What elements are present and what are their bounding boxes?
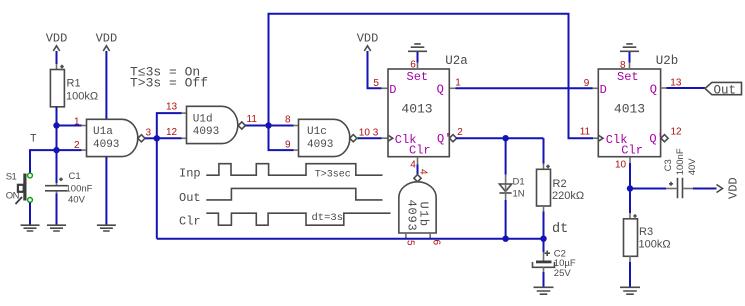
green pin dot (356, 137, 358, 139)
svg-text:100nF: 100nF (66, 183, 93, 194)
wire R3 to ground (629, 256, 631, 287)
svg-text:S1: S1 (6, 172, 17, 183)
node junction D1 bottom (502, 236, 508, 242)
wire junction to U1d pin12 (157, 137, 187, 139)
svg-text:13: 13 (670, 78, 682, 89)
svg-text:VDD: VDD (46, 32, 68, 46)
U1a output bubble (138, 135, 145, 142)
svg-text:VDD: VDD (96, 32, 118, 46)
nand gate U1b 4093 (rotated, pointing up) (399, 182, 436, 233)
svg-text:dt: dt (552, 222, 568, 237)
bottom rail wire (157, 238, 544, 240)
power symbol VDD (left, above R1) (46, 32, 68, 70)
svg-text:9: 9 (584, 78, 590, 89)
svg-text:Clr: Clr (179, 215, 201, 229)
svg-text:T: T (30, 133, 37, 145)
svg-text:Clr: Clr (409, 144, 431, 158)
svg-text:Clr: Clr (621, 144, 643, 158)
wire U2a Q' to D1/R2 (456, 137, 544, 139)
svg-text:9: 9 (285, 139, 291, 150)
svg-text:1: 1 (74, 116, 80, 127)
svg-text:4013: 4013 (401, 102, 432, 117)
ground (below U1a) (97, 225, 116, 231)
svg-text:Set: Set (407, 70, 429, 84)
svg-text:13: 13 (166, 101, 178, 112)
U2a clock wedge (388, 135, 393, 141)
svg-text:R1: R1 (67, 78, 81, 90)
svg-text:D1: D1 (513, 177, 525, 188)
svg-text:C1: C1 (69, 171, 81, 182)
svg-text:100nF: 100nF (675, 148, 686, 175)
wire U1d out to junction (245, 125, 268, 127)
resistor R3 (624, 189, 671, 257)
svg-text:5: 5 (405, 240, 416, 246)
svg-text:D: D (600, 83, 607, 97)
svg-text:11: 11 (247, 114, 258, 125)
node T junction (53, 147, 59, 153)
power symbol VDD (above U1a) (96, 32, 118, 120)
ground (below S1) (21, 225, 40, 231)
svg-text:100kΩ: 100kΩ (66, 90, 98, 102)
capacitor C2 (polarized) (533, 239, 576, 288)
svg-text:25V: 25V (554, 268, 572, 279)
svg-text:VDD: VDD (726, 177, 740, 199)
node junction R1/U1a pin1 (53, 122, 59, 128)
ground (below R3) (620, 287, 640, 294)
svg-text:12: 12 (671, 127, 683, 138)
svg-text:40V: 40V (687, 158, 698, 176)
svg-text:4093: 4093 (193, 126, 219, 138)
wire junction down to bottom rail (156, 138, 158, 238)
U1c output bubble (350, 135, 357, 142)
wire R2 bottom to rail (543, 206, 545, 239)
svg-text:R2: R2 (553, 178, 567, 190)
wire node T to S1 (30, 150, 57, 172)
wire U2b Q to Out (661, 87, 705, 89)
svg-text:8: 8 (285, 114, 291, 125)
svg-text:5: 5 (373, 78, 379, 89)
nand gate U1d 4093 (187, 106, 238, 143)
flip-flop U2b 4013 (598, 54, 678, 157)
diode D1 (499, 138, 524, 239)
power symbol VDD (right of C3, rotated) (717, 177, 741, 199)
wire node to node T (56, 126, 58, 151)
ground (above U2b Set, inverted) (620, 44, 639, 69)
ground (below C2) (534, 287, 554, 294)
wire U2a Q to U2b D (450, 87, 598, 89)
svg-text:Out: Out (179, 191, 201, 205)
capacitor C1 (45, 150, 93, 225)
wire U1c out to U2a clk (358, 137, 388, 139)
ground (above U2a Set, inverted) (408, 44, 427, 69)
wire junction down to U1c pin9 (269, 126, 299, 151)
wire node to U1a pin1 (57, 125, 87, 127)
svg-text:12: 12 (166, 127, 178, 138)
svg-text:Inp: Inp (179, 167, 201, 181)
svg-text:U1a: U1a (93, 126, 113, 138)
svg-text:Set: Set (617, 70, 639, 84)
resistor R1 (50, 65, 98, 107)
svg-text:220kΩ: 220kΩ (552, 190, 584, 202)
wire top rail (U1d out to U2b clk) (269, 14, 594, 138)
ground (below C1) (47, 225, 66, 231)
node junction Clr/R3/C3 (627, 185, 633, 191)
wire S1 to ground (29, 203, 31, 226)
capacitor C3 (630, 148, 717, 198)
svg-text:U1c: U1c (307, 126, 327, 138)
flip-flop U2a 4013 (388, 54, 468, 157)
U2b clock wedge (598, 135, 603, 141)
node junction R2/C2 (540, 236, 546, 242)
wire junction up to U1d pin13 (157, 113, 187, 138)
svg-text:1: 1 (455, 78, 461, 89)
svg-text:4093: 4093 (307, 139, 333, 151)
svg-text:U1d: U1d (193, 114, 213, 126)
wire U2b Clr down (629, 157, 631, 189)
svg-text:2: 2 (457, 127, 463, 138)
U1b output bubble (414, 175, 421, 182)
svg-text:4: 4 (418, 169, 429, 175)
svg-text:6: 6 (431, 240, 442, 246)
timing waveform Inp (206, 164, 382, 176)
svg-text:8: 8 (620, 60, 626, 71)
timing waveform Clr (206, 213, 390, 225)
node U1a out junction (154, 135, 160, 141)
wire R1 to node (56, 107, 58, 126)
svg-text:10: 10 (615, 159, 627, 170)
svg-text:4093: 4093 (405, 200, 419, 232)
node U1d out junction (265, 122, 271, 128)
nand gate U1c 4093 (299, 119, 350, 156)
wire node T to U1a pin2 (57, 149, 87, 151)
svg-text:10 3: 10 3 (359, 128, 379, 139)
nand gate U1a 4093 (87, 119, 138, 156)
svg-text:T>3s = Off: T>3s = Off (130, 75, 208, 90)
svg-text:Out: Out (714, 83, 737, 97)
U2a Q' bubble (449, 135, 456, 142)
wire U2a Clr to U1b (417, 157, 419, 175)
svg-text:3: 3 (146, 127, 152, 138)
U1b pin stubs 5 and 6 (406, 233, 430, 239)
svg-text:6: 6 (410, 60, 416, 71)
svg-text:T>3sec: T>3sec (315, 169, 351, 180)
switch S1 (6, 172, 33, 204)
resistor R2 (537, 165, 585, 206)
svg-text:11: 11 (580, 127, 591, 138)
wire U1a out to junction (145, 137, 157, 139)
svg-text:4013: 4013 (614, 102, 645, 117)
power symbol VDD (above U2a) (357, 32, 388, 89)
svg-text:Q: Q (650, 83, 657, 97)
svg-text:Q: Q (437, 83, 444, 97)
svg-text:C3: C3 (663, 159, 674, 171)
wire down to R2 (543, 138, 545, 163)
U2b Q' bubble (661, 135, 668, 142)
svg-text:4093: 4093 (93, 139, 119, 151)
svg-text:1N: 1N (513, 188, 525, 199)
svg-text:40V: 40V (68, 195, 86, 206)
wire junction to U1c pin8 (269, 125, 299, 127)
wire U1a gnd (105, 157, 107, 226)
timing waveform Out (206, 188, 382, 200)
svg-text:4: 4 (410, 160, 416, 171)
output flag Out (705, 82, 742, 97)
svg-text:U2a: U2a (445, 54, 468, 68)
node junction D1 top (502, 135, 508, 141)
svg-text:D: D (389, 83, 396, 97)
svg-text:2: 2 (74, 140, 80, 151)
svg-text:dt=3s: dt=3s (312, 212, 344, 224)
svg-text:100kΩ: 100kΩ (639, 239, 671, 251)
U1d output bubble (238, 122, 245, 129)
svg-text:U2b: U2b (656, 54, 679, 68)
svg-text:R3: R3 (639, 226, 653, 238)
svg-text:VDD: VDD (357, 32, 379, 46)
